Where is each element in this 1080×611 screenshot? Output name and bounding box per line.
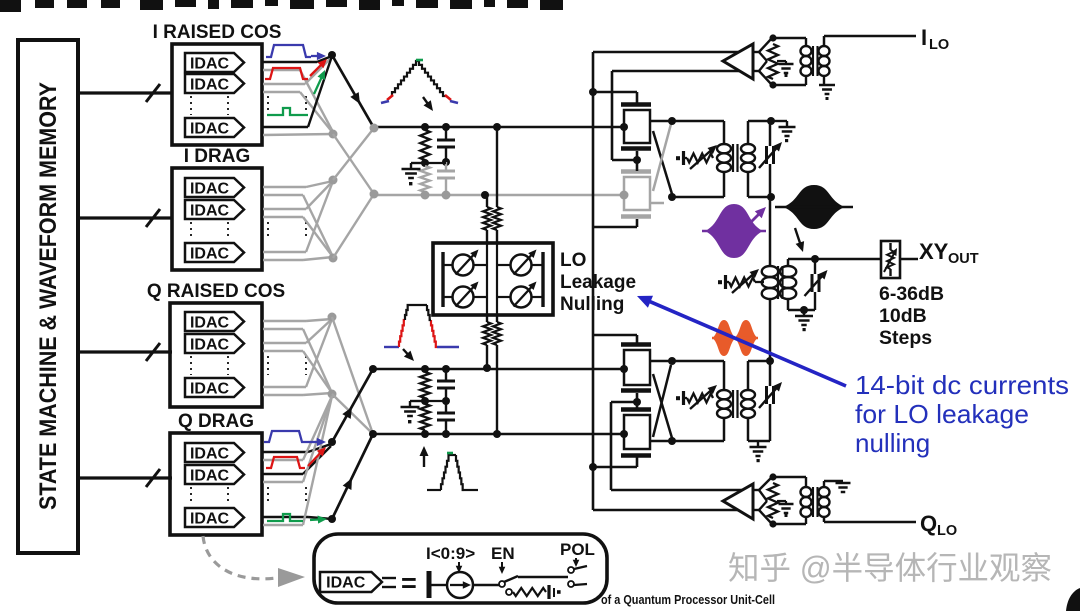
- drain lead M7: [650, 440, 672, 443]
- junction dot Q upper: [369, 365, 377, 373]
- legend EN switch: [473, 576, 518, 587]
- combining vertical wire lower: [769, 299, 772, 361]
- IDAC cell 3 of Q DRAG: [185, 508, 244, 527]
- dot on I line for nulling branch: [493, 123, 501, 131]
- dot term-I top: [769, 34, 776, 41]
- ground T5 secondary top: [824, 481, 851, 492]
- blue raised-cosine pulse and arrow (I path): [266, 45, 326, 60]
- dot term-I bottom: [769, 81, 776, 88]
- transistor M7 gate bar: [621, 407, 651, 412]
- node I-DRAG return dot: [329, 254, 338, 263]
- node I-RC return dot: [329, 130, 338, 139]
- transformer T2 secondary: [741, 390, 755, 418]
- IDAC legend box: [314, 534, 607, 603]
- dot on gray line for nulling branch: [481, 191, 489, 199]
- wire IDAC Q-DRAG-3 output: [263, 517, 332, 519]
- red pulse and arrow (Q path): [266, 447, 326, 468]
- Q RAISED COS group box and label: [147, 281, 285, 407]
- termination resistor Q: [768, 483, 778, 518]
- legend POL switch contacts: [568, 566, 587, 587]
- Q lower signal line: [373, 433, 624, 436]
- drain lead M1: [650, 120, 672, 123]
- dot term-Q top: [769, 473, 776, 480]
- dashed gray arrow to legend: [203, 536, 305, 587]
- gate feed wire M1: [593, 92, 637, 103]
- variable capacitor tank1: [759, 121, 782, 197]
- dot I line at gate: [620, 123, 628, 131]
- transformer T3 secondary: [780, 266, 797, 299]
- centre ground Q termination: [777, 501, 794, 517]
- gate feed wire M6: [636, 393, 639, 400]
- step attenuator: [881, 241, 900, 278]
- gate feed wire M8: [593, 457, 637, 467]
- legend POL label and arrow: [560, 540, 595, 567]
- dot Q upper line at gate: [620, 365, 628, 373]
- dotted continuation marks of Q RAISED COS: [191, 356, 306, 375]
- svg-text:Q RAISED COS: Q RAISED COS: [147, 281, 285, 302]
- transformer T1 secondary: [741, 144, 755, 172]
- watermark text: [728, 550, 1052, 586]
- legend IDAC symbol: [320, 572, 382, 592]
- Q DRAG group box and label: [170, 411, 262, 535]
- transformer T2 primary: [717, 390, 731, 418]
- arrow pointing to Q RC from pulse: [403, 349, 414, 361]
- tank2 secondary bottom lead: [748, 418, 770, 441]
- green pulse and arrow (I path): [267, 70, 325, 115]
- dot R1 top: [421, 123, 429, 131]
- LO Leakage Nulling label: [560, 250, 636, 315]
- state machine and waveform memory block: [18, 40, 78, 553]
- gate feed wire M3: [636, 162, 639, 171]
- transistor M6 gate bar: [621, 388, 651, 393]
- IDAC cell 3 of I DRAG: [185, 243, 244, 262]
- variable capacitor XY: [805, 259, 828, 310]
- ground T4 secondary: [819, 76, 835, 100]
- LO- distribution wire lower: [611, 402, 637, 490]
- svg-text:OUT: OUT: [948, 251, 979, 267]
- Q RAISED COS output wires fan: [263, 319, 332, 387]
- capacitor C4 (Q path): [437, 401, 455, 434]
- nulling box centre verticals: [487, 243, 497, 315]
- IDAC cell 2 of I DRAG: [185, 200, 244, 219]
- variable resistor tank2: [676, 385, 717, 409]
- IDAC cell 3 of I RAISED COS: [185, 118, 244, 137]
- dotted continuation marks of Q DRAG: [191, 487, 306, 505]
- gate feed wire M5: [593, 335, 637, 343]
- legend current source: [447, 572, 473, 598]
- svg-text:LO: LO: [560, 250, 586, 271]
- Q RAISED COS return wires fan: [263, 329, 332, 395]
- transformer T4 secondary: [819, 46, 830, 76]
- I LO output wire: [824, 36, 916, 46]
- XY OUT label: [919, 239, 979, 267]
- dot R3 top: [421, 365, 429, 373]
- stepped bump waveform sketch (Q drag): [427, 453, 478, 490]
- node Q-RC out dot: [328, 313, 337, 322]
- ground tank1: [771, 121, 796, 142]
- transformer T5 core: [813, 487, 818, 517]
- Q DRAG return wires fan: [263, 396, 332, 525]
- digital bus 1 with slash: [78, 84, 172, 102]
- diagonal Q- to lower line with arrow: [332, 434, 373, 519]
- LO buffer amp Q (triangle): [723, 484, 753, 519]
- svg-text:Q DRAG: Q DRAG: [178, 411, 254, 432]
- cross lead M5 to lower rail: [653, 374, 672, 438]
- T5 primary bottom lead: [773, 517, 806, 524]
- diagonal Q-RC-return to minus line: [332, 394, 373, 434]
- variable resistor output bias: [718, 269, 759, 293]
- digital bus 2 with slash: [78, 209, 172, 227]
- LO- distribution wire upper: [612, 71, 637, 160]
- I LO label: [921, 25, 949, 53]
- IDAC cell 2 of I RAISED COS: [185, 74, 244, 93]
- cross lead M1 to lower rail: [653, 131, 672, 194]
- svg-text:IDAC: IDAC: [190, 467, 230, 484]
- dot R2 bottom: [421, 191, 430, 200]
- dot term-Q bottom: [769, 520, 776, 527]
- transformer T1 core: [733, 144, 738, 172]
- wire IDAC I-RC-3 output: [263, 56, 332, 127]
- svg-text:IDAC: IDAC: [190, 510, 230, 527]
- tank1 secondary bottom lead: [748, 172, 771, 197]
- capacitor C3 (Q path): [437, 369, 455, 399]
- combining vertical wire: [769, 197, 772, 266]
- svg-text:IDAC: IDAC: [190, 202, 230, 219]
- svg-text:nulling: nulling: [855, 428, 930, 458]
- blue pulse and arrow (Q path): [264, 431, 326, 446]
- variable current source U4: [497, 282, 543, 308]
- resistor R4 (Q path): [420, 404, 430, 430]
- IDAC cell 1 of I DRAG: [185, 178, 244, 197]
- dot tank2 right top: [766, 357, 774, 365]
- ground at Q RC midpoint: [401, 401, 426, 423]
- Q LO label: [920, 511, 957, 539]
- dot on Q upper line nulling: [483, 364, 491, 372]
- IDAC cell 1 of Q RAISED COS: [185, 312, 244, 331]
- dot Q lower line at gate: [620, 430, 628, 438]
- Q LO differential lines: [593, 490, 744, 510]
- svg-text:for LO leakage: for LO leakage: [855, 399, 1029, 429]
- svg-text:10dB: 10dB: [879, 305, 927, 327]
- dotted continuation marks of I DRAG: [191, 222, 306, 240]
- digital bus 4 with slash: [78, 469, 172, 487]
- tank1 bottom rail: [672, 172, 724, 197]
- transformer T2 core: [733, 390, 738, 418]
- node Q- summing dot: [328, 515, 336, 523]
- transistor M4 gate bar (gray): [621, 214, 651, 219]
- transistor M1 channel: [624, 110, 650, 143]
- svg-text:LO: LO: [937, 523, 957, 539]
- variable current source U2: [497, 250, 543, 276]
- drain lead M3 (gray): [650, 202, 664, 205]
- variable current source U1: [443, 250, 487, 276]
- variable current source U3: [443, 282, 487, 308]
- stepped pulse waveform sketch (Q raised cos): [384, 305, 459, 347]
- dot XY line: [811, 255, 819, 263]
- svg-text:EN: EN: [491, 544, 515, 563]
- gate feed wire M4: [593, 219, 637, 227]
- svg-text:6-36dB: 6-36dB: [879, 283, 944, 305]
- svg-text:IDAC: IDAC: [326, 575, 366, 592]
- black arrow below packet: [795, 228, 804, 252]
- LO buffer I output fork: [753, 38, 772, 85]
- svg-text:IDAC: IDAC: [190, 76, 230, 93]
- 14-bit dc currents annotation: [855, 370, 1069, 458]
- dot R4 bottom: [421, 430, 429, 438]
- wire attenuator to XYout: [900, 258, 918, 261]
- junction dot on I plus line: [370, 124, 379, 133]
- cut-off slide title text: [0, 0, 563, 12]
- nulling branch resistor lower-left: [483, 315, 491, 368]
- nulling branch resistor lower-right: [493, 315, 501, 434]
- legend IDAC output stubs: [382, 578, 396, 587]
- dot C1 mid: [442, 158, 450, 166]
- wire IDAC Q-DRAG-2 output: [263, 446, 331, 474]
- IDAC cell 1 of Q DRAG: [185, 443, 244, 462]
- svg-text:I DRAG: I DRAG: [184, 146, 251, 167]
- dot on Q lower line nulling: [493, 430, 501, 438]
- svg-text:=: =: [401, 568, 417, 598]
- I minus signal line (gray): [374, 194, 624, 197]
- wire bias to T3: [755, 281, 764, 283]
- wire IDAC I-RC-1 output: [263, 56, 332, 62]
- I DRAG return wires fan: [263, 195, 333, 260]
- termination resistor I: [768, 44, 778, 79]
- ground at I RC midpoint: [402, 163, 426, 185]
- svg-text:of a Quantum Processor Unit-Ce: of a Quantum Processor Unit-Cell: [601, 593, 775, 607]
- capacitor C1 (I path): [437, 127, 455, 160]
- diagonal I+ to line with arrow: [332, 55, 374, 128]
- LO buffer amp I (triangle): [723, 44, 753, 79]
- svg-text:IDAC: IDAC: [190, 336, 230, 353]
- junction dot Q lower: [369, 430, 377, 438]
- svg-text:I: I: [921, 25, 927, 50]
- dot C4 bottom: [442, 430, 450, 438]
- IDAC cell 1 of I RAISED COS: [185, 53, 244, 72]
- wire IDAC Q-DRAG-1 output: [263, 444, 331, 452]
- transformer T3 primary: [762, 266, 779, 299]
- node Q-RC return dot: [328, 390, 337, 399]
- svg-text:I RAISED COS: I RAISED COS: [153, 22, 282, 43]
- gate feed wire M2: [636, 151, 639, 158]
- nulling branch resistor upper-left: [483, 195, 491, 243]
- dot tank1 right bottom: [767, 193, 775, 201]
- wire IDAC I-RC-2 output: [263, 58, 331, 84]
- svg-text:Leakage: Leakage: [560, 272, 636, 293]
- node Q+ summing dot: [328, 438, 336, 446]
- node I-DRAG out dot: [329, 176, 338, 185]
- svg-text:Steps: Steps: [879, 327, 932, 349]
- legend EN label and arrow: [491, 544, 515, 574]
- transistor M1 gate bar: [621, 102, 651, 107]
- svg-text:14-bit dc currents: 14-bit dc currents: [855, 370, 1069, 400]
- purple arrow: [749, 207, 766, 224]
- junction dot on I minus line: [370, 190, 379, 199]
- IDAC cell 2 of Q DRAG: [185, 465, 244, 484]
- dot LO- gate node upper: [633, 156, 641, 164]
- LO+ distribution vertical wire: [592, 52, 595, 510]
- svg-text:知乎 @半导体行业观察: 知乎 @半导体行业观察: [728, 550, 1052, 586]
- diagonal I-DRAG-return to minus line: [333, 194, 374, 258]
- svg-text:IDAC: IDAC: [190, 180, 230, 197]
- red pulse and arrow (I path): [265, 59, 327, 79]
- svg-text:POL: POL: [560, 540, 595, 559]
- orange modulated wave packet: [712, 320, 758, 356]
- transistor M7 channel: [624, 415, 650, 449]
- transistor M3 channel (gray): [624, 177, 650, 210]
- svg-text:IDAC: IDAC: [190, 380, 230, 397]
- blue annotation arrow: [637, 296, 846, 386]
- transistor M5 channel: [624, 350, 650, 385]
- svg-text:IDAC: IDAC: [190, 445, 230, 462]
- legend lower branch resistor and cap: [506, 585, 561, 599]
- I plus signal line: [374, 126, 624, 129]
- tank2 top rail: [672, 361, 724, 390]
- T3 secondary bottom lead: [788, 299, 815, 310]
- variable capacitor tank2: [759, 361, 782, 441]
- resistor R1 (I path): [420, 130, 430, 160]
- legend wire bar to source: [431, 584, 447, 586]
- tank1 secondary top lead: [748, 121, 771, 144]
- transformer T4 primary: [801, 46, 812, 76]
- dot C1 top: [442, 123, 450, 131]
- svg-text:IDAC: IDAC: [190, 120, 230, 137]
- T5 primary top lead: [773, 477, 806, 487]
- tank2 bottom rail: [672, 418, 724, 441]
- wire IDAC I-RC-2 return: [263, 92, 333, 133]
- dot tank2 left top: [668, 357, 676, 365]
- transformer T5 secondary: [819, 487, 830, 517]
- tank2 secondary top lead: [748, 361, 770, 390]
- IDAC cell 3 of Q RAISED COS: [185, 378, 244, 397]
- dot T3 ground node: [800, 306, 808, 314]
- cross lead M7 to upper rail: [653, 365, 671, 437]
- wire C1-R1 mid link: [425, 162, 446, 164]
- svg-text:IDAC: IDAC: [190, 314, 230, 331]
- capacitor C2 gray (I path): [437, 162, 455, 195]
- resistor R2 gray (I path): [420, 166, 430, 192]
- legend wire switch to POL: [518, 576, 568, 578]
- drain lead M5: [650, 360, 672, 363]
- black modulated wave packet: [775, 185, 853, 229]
- dot I minus line at gate: [620, 191, 629, 200]
- dot R3 mid: [421, 397, 429, 405]
- dotted continuation marks of I RAISED COS: [191, 96, 306, 115]
- ground tank2: [750, 441, 767, 462]
- dot tank1 left top: [668, 117, 676, 125]
- arrow pointing up to Q lower line: [420, 446, 429, 467]
- cross lead M3 to upper rail (gray): [653, 124, 671, 191]
- digital bus 3 with slash: [78, 343, 172, 361]
- transistor M8 gate bar: [621, 453, 651, 458]
- T4 primary bottom lead: [773, 76, 806, 85]
- transformer T4 core: [813, 46, 818, 76]
- I DRAG output wires fan: [263, 181, 333, 252]
- diagonal I-DRAG-out to plus line: [333, 128, 374, 180]
- dot tank2 left bottom: [668, 437, 676, 445]
- dot tank1 right top: [767, 117, 775, 125]
- tank1 top rail: [672, 121, 724, 144]
- nulling branch resistor upper-right: [493, 127, 501, 243]
- legend supply bar: [427, 571, 432, 598]
- green pulse and arrow (Q path): [267, 514, 327, 524]
- transformer T1 primary: [717, 144, 731, 172]
- T4 primary top lead: [773, 38, 806, 46]
- wire IDAC I-RC-3 return: [263, 134, 333, 135]
- bottom-right corner mark: [1066, 588, 1080, 611]
- LO leakage nulling box: [433, 243, 553, 315]
- dot C3 mid: [442, 397, 450, 405]
- Q LO output wire: [824, 517, 916, 522]
- purple modulated wave packet: [702, 204, 766, 258]
- node I+ summing dot: [328, 51, 336, 59]
- transistor M3 gate bar (gray pair): [621, 169, 651, 174]
- dot C2 bottom: [442, 191, 451, 200]
- wire IDAC I-RC-1 return: [263, 70, 333, 132]
- wire C3-R3 mid link: [425, 400, 446, 402]
- I RAISED COS group box and label: [153, 22, 282, 145]
- centre ground I termination: [777, 61, 794, 77]
- I LO differential lines: [593, 52, 744, 71]
- diagonal I-RC-return to minus line: [333, 134, 374, 194]
- transformer T3 core: [778, 266, 783, 299]
- dot R1 mid: [421, 159, 429, 167]
- gate feed wire M7: [636, 404, 639, 409]
- XY output wire: [788, 259, 882, 266]
- dot LO- gate node lower: [633, 398, 641, 406]
- dot tank1 left bottom: [668, 193, 676, 201]
- dot LO+ lower: [589, 463, 597, 471]
- I DRAG group box and label: [172, 146, 262, 270]
- transistor M5 gate bar: [621, 342, 651, 347]
- IDAC cell 2 of Q RAISED COS: [185, 334, 244, 353]
- svg-text:IDAC: IDAC: [190, 55, 230, 72]
- svg-text:LO: LO: [929, 37, 949, 53]
- caption text: [601, 593, 775, 607]
- diagonal Q+ to upper line with arrow: [332, 369, 373, 442]
- svg-text:XY: XY: [919, 239, 949, 264]
- Q upper signal line: [373, 368, 624, 371]
- arrow pointing to I RC: [423, 97, 433, 111]
- legend I<0:9> label and arrow: [426, 544, 475, 573]
- variable resistor tank1: [676, 145, 717, 169]
- svg-text:I<0:9>: I<0:9>: [426, 544, 475, 563]
- stepped raised-cosine waveform sketch (I): [381, 60, 458, 103]
- transformer T5 primary: [801, 487, 812, 517]
- diagonal Q-RC-out to minus line: [332, 317, 373, 434]
- svg-text:STATE MACHINE & WAVEFORM MEMOR: STATE MACHINE & WAVEFORM MEMORY: [35, 82, 62, 510]
- LO buffer Q output fork: [753, 477, 772, 524]
- svg-text:Q: Q: [920, 511, 937, 536]
- svg-text:IDAC: IDAC: [190, 245, 230, 262]
- 6-36dB 10dB Steps label: [879, 283, 944, 349]
- resistor R3 (Q path): [420, 372, 430, 398]
- dot LO+ upper: [589, 88, 597, 96]
- nulling box side rails: [443, 252, 543, 307]
- dot C3 top: [442, 365, 450, 373]
- transistor M2 gate bar: [621, 146, 651, 151]
- ground T3: [795, 310, 813, 331]
- legend equals sign: [401, 568, 417, 598]
